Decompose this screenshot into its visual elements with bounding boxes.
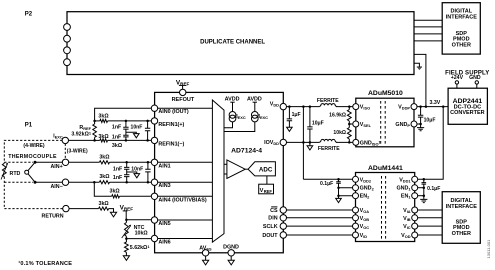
svg-text:ADC: ADC xyxy=(259,167,273,174)
wire AIN- to chip xyxy=(35,181,155,183)
node REFIN1+ junctions xyxy=(93,120,149,123)
svg-text:DUPLICATE CHANNEL: DUPLICATE CHANNEL xyxy=(200,40,265,46)
wire (3-wire jumper) xyxy=(64,144,66,159)
svg-text:P2: P2 xyxy=(25,12,33,18)
svg-text:10kΩ: 10kΩ xyxy=(135,230,149,236)
pin REFIN1(&#8722;) xyxy=(151,137,184,147)
svg-text:3kΩ: 3kΩ xyxy=(99,155,110,161)
svg-text:INTERFACE: INTERFACE xyxy=(446,14,478,20)
svg-text:THERMOCOUPLE: THERMOCOUPLE xyxy=(8,154,57,160)
wire VOD xyxy=(415,234,443,236)
label IEXC xyxy=(53,133,63,139)
svg-text:IOVDD: IOVDD xyxy=(264,140,279,146)
svg-text:3kΩ: 3kΩ xyxy=(99,201,110,207)
svg-text:3kΩ: 3kΩ xyxy=(99,174,110,180)
svg-text:REF: REF xyxy=(264,189,273,194)
svg-text:GND: GND xyxy=(469,75,481,81)
svg-text:OTHER: OTHER xyxy=(452,231,471,237)
ADC block xyxy=(248,162,275,176)
label 4-wire xyxy=(23,143,45,149)
node 3.3V dots xyxy=(419,105,444,108)
resistor 3k (RETURN) xyxy=(99,201,110,210)
resistor 3k (AIN4) xyxy=(110,188,121,198)
svg-text:VOA: VOA xyxy=(360,208,370,214)
pin AIN3 xyxy=(151,179,170,189)
capacitor 1nF (ain top) xyxy=(113,162,130,174)
svg-text:VDD: VDD xyxy=(270,102,279,108)
wire AIN6 to mux xyxy=(155,238,213,240)
pin AVSS xyxy=(199,245,212,256)
label 3.3V xyxy=(429,100,440,106)
svg-text:3kΩ: 3kΩ xyxy=(98,113,109,119)
node VDD2 junction xyxy=(337,178,340,181)
wire AIN4 branch xyxy=(94,182,154,196)
VREF block xyxy=(259,184,274,194)
thermistor NTC 10k xyxy=(122,220,149,238)
svg-text:REFIN1(+): REFIN1(+) xyxy=(158,122,184,128)
wire 3.3V rail xyxy=(414,106,448,108)
node VREF (top) xyxy=(176,79,190,92)
wire duplicate channel to digital interface 3 xyxy=(414,33,442,35)
ground (duplicate channel) xyxy=(414,63,422,70)
svg-text:SCLK: SCLK xyxy=(263,224,278,230)
svg-text:GND2: GND2 xyxy=(360,186,375,192)
pin VDDP xyxy=(398,104,417,111)
resistor 3k (REFIN1+) xyxy=(95,113,155,122)
svg-text:VISO: VISO xyxy=(360,105,370,111)
svg-text:5.62kΩ1: 5.62kΩ1 xyxy=(130,244,151,251)
svg-text:CS: CS xyxy=(270,208,278,214)
svg-text:1nF: 1nF xyxy=(113,175,123,181)
pin VID xyxy=(353,232,368,239)
svg-text:3kΩ: 3kΩ xyxy=(110,188,121,194)
ground (DGND) xyxy=(228,256,234,265)
op-amp PGA xyxy=(227,160,245,179)
capacitor 0.1uF (VDD1) xyxy=(422,179,441,195)
capacitor 1uF xyxy=(287,107,301,128)
wire SCLK xyxy=(283,225,355,227)
node AIN+ junctions xyxy=(125,161,149,164)
ground (AVSS) xyxy=(203,256,209,265)
svg-text:DOUT: DOUT xyxy=(262,233,278,239)
current source IEXC 1 xyxy=(224,96,246,127)
wire GNDP xyxy=(414,123,422,126)
svg-text:DIN: DIN xyxy=(268,216,277,222)
pin AIN5 xyxy=(151,217,170,227)
svg-text:AIN6: AIN6 xyxy=(158,240,170,246)
svg-text:VDD1: VDD1 xyxy=(399,177,411,183)
wire AIN5 to mux xyxy=(155,219,213,221)
thermocouple junction xyxy=(25,162,35,182)
connector P2 label xyxy=(25,12,33,18)
svg-text:IEXC: IEXC xyxy=(236,114,246,120)
svg-text:AIN−: AIN− xyxy=(50,184,62,190)
svg-text:VOB: VOB xyxy=(360,216,370,222)
resistor 16.9k xyxy=(329,107,351,124)
svg-text:IEXC: IEXC xyxy=(53,133,63,139)
svg-text:INTERFACE: INTERFACE xyxy=(446,204,478,210)
wire IEXC xyxy=(65,139,94,141)
ground (ref caps) xyxy=(126,132,139,138)
capacitor 1nF (ref bottom) xyxy=(112,135,129,141)
svg-text:RTD: RTD xyxy=(10,171,21,177)
wire AIN4 to mux xyxy=(155,195,213,197)
wire AIN0 loop xyxy=(95,108,155,121)
pin EN2 xyxy=(353,193,371,200)
svg-text:VIA: VIA xyxy=(403,208,411,214)
isolated dc-dc ADuM5010 xyxy=(356,90,414,147)
node AIN+ tap xyxy=(34,161,37,164)
wire VIB xyxy=(415,217,443,219)
node VREF (bottom) xyxy=(120,204,134,220)
pin VSEL xyxy=(353,121,372,128)
connector P1 label xyxy=(25,122,33,128)
svg-text:VIB: VIB xyxy=(403,216,411,222)
dc-to-dc converter ADP2441 xyxy=(448,88,487,124)
pin VIB xyxy=(403,215,418,222)
svg-text:FERRITE: FERRITE xyxy=(318,146,340,152)
svg-text:AIN4 (IOUT/VBIAS): AIN4 (IOUT/VBIAS) xyxy=(158,197,206,203)
capacitor 0.1uF (VDD2) xyxy=(320,179,341,195)
wire AIN0 to mux xyxy=(155,107,213,109)
node VDD rail dots xyxy=(288,105,350,108)
ground (5.62k) xyxy=(123,252,129,260)
svg-text:P1: P1 xyxy=(25,122,33,128)
svg-text:REFOUT: REFOUT xyxy=(172,97,195,103)
digital interface block (bottom) xyxy=(442,192,480,244)
svg-text:ADuM5010: ADuM5010 xyxy=(368,90,403,97)
label 3-wire xyxy=(67,149,88,155)
svg-text:VSEL: VSEL xyxy=(360,122,372,128)
node REFIN1- junctions xyxy=(93,139,149,142)
svg-text:RETURN: RETURN xyxy=(42,214,64,220)
pin IOVDD xyxy=(264,139,286,146)
svg-text:AVDD: AVDD xyxy=(225,96,240,102)
svg-text:VOC: VOC xyxy=(360,224,370,230)
svg-text:13011-001: 13011-001 xyxy=(486,239,491,259)
svg-text:10nF: 10nF xyxy=(131,124,143,130)
pin VOD xyxy=(401,232,418,239)
svg-text:GNDP: GNDP xyxy=(395,122,410,128)
svg-text:EN1: EN1 xyxy=(401,194,412,200)
wire RTD dashed bottom xyxy=(4,177,62,209)
svg-text:AD7124-4: AD7124-4 xyxy=(231,147,262,154)
node IOVDD rail dots xyxy=(302,141,350,144)
svg-text:VDDP: VDDP xyxy=(398,105,410,111)
capacitor 1nF (ain bottom) xyxy=(113,175,130,183)
wire GND1 xyxy=(415,186,425,189)
pin VOB xyxy=(353,215,370,222)
node VDD1 junction xyxy=(423,178,426,181)
wire EN1 xyxy=(415,194,425,197)
pin AIN4 (IOUT/VBIAS) xyxy=(151,193,207,203)
svg-text:GND1: GND1 xyxy=(396,186,411,192)
svg-text:CONVERTER: CONVERTER xyxy=(450,110,485,116)
digital isolator ADuM1441 xyxy=(356,165,415,242)
svg-text:3kΩ: 3kΩ xyxy=(112,143,123,149)
wire VDD2 feed xyxy=(303,178,355,180)
svg-text:VID: VID xyxy=(360,233,368,239)
pin REFOUT xyxy=(172,89,195,103)
wire VDD1 feed xyxy=(415,107,444,180)
svg-text:(3-WIRE): (3-WIRE) xyxy=(67,149,88,155)
ground (EN2) xyxy=(336,196,342,203)
svg-text:1nF: 1nF xyxy=(112,135,122,141)
label 3k (below REFIN1-) xyxy=(112,143,123,149)
connector P2 pin 1 xyxy=(64,24,71,31)
RTD element xyxy=(1,163,21,180)
svg-text:AIN0 (IOUT): AIN0 (IOUT) xyxy=(158,109,188,115)
svg-text:EN2: EN2 xyxy=(360,194,371,200)
svg-text:1nF: 1nF xyxy=(113,166,123,172)
node AIN- junctions xyxy=(93,181,149,184)
capacitor 10nF (ain) xyxy=(131,162,150,182)
pin REFIN1(+) xyxy=(151,118,184,128)
svg-text:VDD2: VDD2 xyxy=(360,177,372,183)
ferrite bead (VDD) xyxy=(317,98,339,107)
svg-text:FERRITE: FERRITE xyxy=(317,98,339,104)
wire VSEL xyxy=(348,123,356,126)
resistor 3k (AIN-) xyxy=(99,174,110,184)
wire mux to PGA xyxy=(224,164,227,174)
svg-text:(4-WIRE): (4-WIRE) xyxy=(23,143,45,149)
connector P1 pin AIN- xyxy=(50,179,68,190)
wire VREF to AIN5 xyxy=(125,219,154,222)
pin VIC xyxy=(403,223,418,230)
pin DOUT xyxy=(262,232,286,239)
ground (ain caps) xyxy=(127,172,140,178)
connector P1 pin AIN+ xyxy=(50,159,68,170)
ground (RETURN) xyxy=(110,212,116,217)
svg-text:VIC: VIC xyxy=(403,224,411,230)
connector P2 pin 2 xyxy=(64,35,71,42)
pin VOC xyxy=(353,223,370,230)
capacitor 10nF (ref) xyxy=(131,121,151,140)
wire RTD sense dashed 2 xyxy=(4,181,33,183)
wire duplicate channel to digital interface 2 xyxy=(414,26,442,28)
current source IEXC 2 xyxy=(224,96,268,131)
svg-text:1μF: 1μF xyxy=(292,112,301,118)
wire PGA to ADC xyxy=(245,168,248,170)
wire AIN3 to mux xyxy=(155,181,213,183)
wire duplicate channel 3.3V feed xyxy=(414,54,426,106)
pin AIN0 (IOUT) xyxy=(151,105,189,115)
capacitor 10uF (iso) xyxy=(307,107,324,143)
resistor 3k (AIN+) xyxy=(99,155,110,164)
resistor 3k (REFIN1-) xyxy=(95,134,155,142)
pin VIA xyxy=(403,207,418,214)
wire VIC xyxy=(415,225,443,227)
wire VDD rail xyxy=(283,106,356,108)
ground (iso gnd) xyxy=(307,142,313,150)
connector P2 pin 4 xyxy=(64,59,71,66)
pin DGND xyxy=(223,245,239,256)
pin VDD1 xyxy=(399,176,418,183)
svg-text:16.9kΩ: 16.9kΩ xyxy=(329,113,346,119)
pin GND1 xyxy=(396,185,417,192)
wire GND2 xyxy=(337,186,355,189)
svg-text:3.92kΩ1: 3.92kΩ1 xyxy=(71,131,92,138)
wire EN2 xyxy=(337,194,355,197)
connector P1 pin RETURN xyxy=(42,205,70,219)
wire VDD to IOVDD and VDD2 xyxy=(302,107,304,180)
resistor RREF 3.92k xyxy=(71,121,96,140)
pin GNDISO xyxy=(353,139,382,146)
svg-text:AVDD: AVDD xyxy=(247,96,262,102)
pin AIN6 xyxy=(151,235,170,245)
wire VIA xyxy=(415,209,443,211)
figure number xyxy=(486,239,491,259)
pin SCLK xyxy=(263,223,287,230)
pin EN1 xyxy=(401,193,418,200)
svg-text:0.1μF: 0.1μF xyxy=(427,186,440,192)
pin AIN1 xyxy=(151,159,170,169)
wire duplicate channel to digital interface 1 xyxy=(414,19,442,21)
svg-text:AIN1: AIN1 xyxy=(158,163,170,169)
wire AIN1 to mux xyxy=(155,161,213,163)
svg-text:AIN+: AIN+ xyxy=(50,164,62,170)
ferrite bead (GND) xyxy=(318,139,340,151)
field supply labels xyxy=(445,70,489,81)
pin VISO xyxy=(353,104,370,111)
capacitor 10uF (3.3V) xyxy=(418,107,436,124)
pin GND2 xyxy=(353,185,375,192)
svg-text:0.1μF: 0.1μF xyxy=(320,181,333,187)
wire RTD dashed top xyxy=(4,140,62,163)
wire duplicate channel to digital interface 4 xyxy=(414,40,442,42)
svg-text:10kΩ: 10kΩ xyxy=(333,130,346,136)
wire DIN xyxy=(283,217,355,219)
wire NTC to AIN6 xyxy=(125,236,154,240)
svg-text:AIN3: AIN3 xyxy=(158,183,170,189)
ground (GNDP) xyxy=(417,124,424,131)
svg-text:3kΩ: 3kΩ xyxy=(98,134,109,140)
field supply +24V terminal xyxy=(455,81,458,88)
pin VDD2 xyxy=(353,176,372,183)
pin VOA xyxy=(353,207,370,214)
svg-text:IEXC: IEXC xyxy=(259,114,269,120)
svg-text:VOD: VOD xyxy=(401,233,411,239)
svg-text:¹0.1% TOLERANCE: ¹0.1% TOLERANCE xyxy=(18,260,72,267)
ADC chip AD7124-4 outline xyxy=(155,92,284,252)
field supply GND terminal xyxy=(475,81,478,88)
wire DOUT xyxy=(283,234,355,236)
wire RTD sense dashed 1 xyxy=(4,161,33,163)
svg-text:3.3V: 3.3V xyxy=(429,100,440,106)
svg-text:1nF: 1nF xyxy=(112,124,122,130)
svg-text:10μF: 10μF xyxy=(312,121,324,127)
wire CS xyxy=(283,209,355,211)
svg-text:ADuM1441: ADuM1441 xyxy=(368,165,403,172)
digital interface block (top) xyxy=(442,3,480,54)
wire ADC to VREF block xyxy=(266,176,268,184)
svg-text:VREF: VREF xyxy=(120,204,134,211)
resistor 5.62k xyxy=(125,239,151,253)
pin CS xyxy=(270,207,286,214)
svg-text:OTHER: OTHER xyxy=(452,42,471,48)
duplicate channel block xyxy=(67,12,414,75)
node AIN- tap xyxy=(34,181,37,184)
svg-text:REFIN1(−): REFIN1(−) xyxy=(158,141,184,147)
ground (1uF) xyxy=(287,127,293,131)
resistor 10k (VSEL) xyxy=(333,124,351,142)
ground (EN1) xyxy=(420,196,427,203)
footnote tolerance xyxy=(18,260,72,267)
capacitor 1nF (ref top) xyxy=(112,121,129,135)
svg-text:GNDISO1: GNDISO1 xyxy=(360,139,382,146)
svg-text:AIN5: AIN5 xyxy=(158,221,170,227)
connector P2 pin 3 xyxy=(64,47,71,54)
svg-text:10nF: 10nF xyxy=(131,166,143,172)
label THERMOCOUPLE xyxy=(8,154,57,160)
pin GNDP xyxy=(395,121,417,128)
connector P1 pin IEXC xyxy=(62,137,68,143)
wire AIN+ to chip xyxy=(35,161,155,163)
wire RETURN xyxy=(66,209,114,213)
wire IOVDD rail xyxy=(283,141,356,143)
multiplexer xyxy=(212,100,224,242)
pin VDD xyxy=(270,102,287,110)
pin DIN xyxy=(268,215,286,222)
svg-text:10μF: 10μF xyxy=(424,118,436,124)
